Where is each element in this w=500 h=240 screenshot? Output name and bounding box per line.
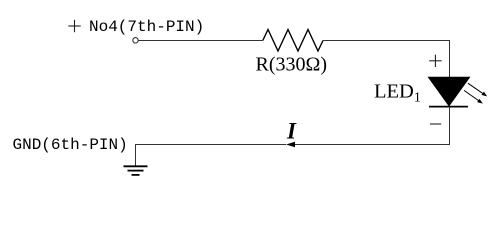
label - (LED cathode) [430, 123, 441, 125]
resistor R [263, 30, 323, 52]
ground symbol [124, 166, 148, 175]
wire from resistor to top-right corner [323, 40, 450, 42]
LED light emission arrow upper [468, 83, 487, 96]
label + (polarity sign of supply node) [68, 20, 80, 32]
svg-text:LED1: LED1 [374, 80, 421, 105]
terminal node No4 (open circle) [133, 38, 138, 43]
current arrowhead I (pointing left) [286, 142, 295, 148]
wire from terminal to resistor [138, 40, 262, 42]
svg-text:I: I [286, 118, 297, 143]
label + (LED anode) [429, 55, 441, 67]
LED light emission arrow lower [464, 90, 483, 103]
svg-text:No4(7th-PIN): No4(7th-PIN) [89, 18, 204, 36]
wire down to LED anode [449, 40, 451, 78]
svg-text:GND(6th-PIN): GND(6th-PIN) [13, 136, 128, 154]
ground stem [135, 144, 137, 166]
wire bottom return (left segment to ground node) [136, 144, 287, 146]
wire from LED cathode down to bottom-right corner [449, 107, 451, 145]
svg-text:R(330Ω): R(330Ω) [256, 54, 328, 76]
wire bottom return (right segment) [295, 144, 450, 146]
LED LED1 triangle (anode) [429, 77, 470, 106]
LED LED1 cathode bar [429, 106, 468, 108]
